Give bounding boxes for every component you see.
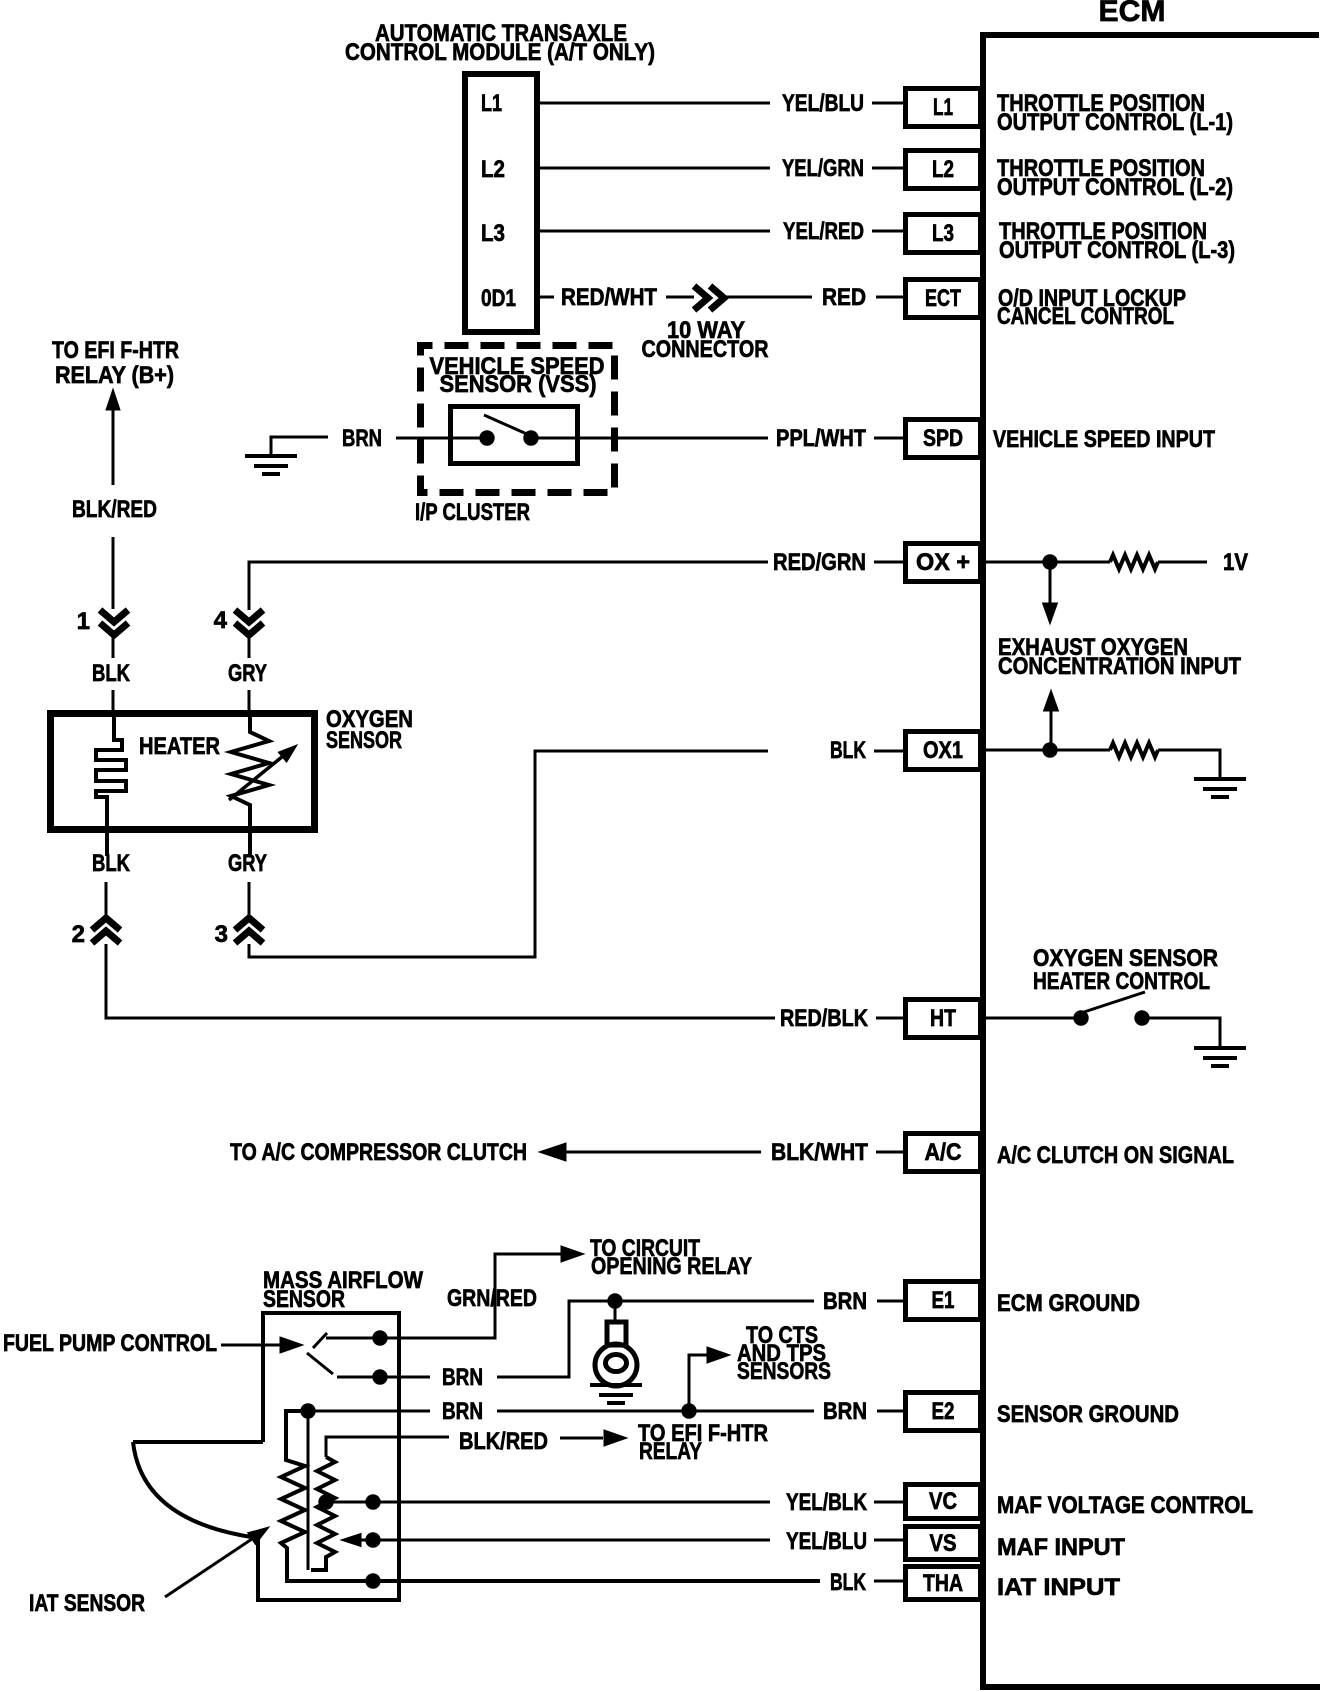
MAF terminal THA [366, 1574, 380, 1588]
oxygen sensing element (variable resistor) [231, 713, 269, 856]
svg-text:GRY: GRY [228, 660, 267, 687]
svg-text:BRN: BRN [823, 1288, 867, 1315]
ECM pin box ECT [906, 280, 981, 318]
svg-text:PPL/WHT: PPL/WHT [776, 425, 866, 452]
resistor OX1 to ground [1110, 743, 1158, 757]
ground at heater control switch [1194, 1048, 1246, 1066]
IAT sensor resistor [281, 1411, 820, 1581]
ECM pin box E2 [906, 1393, 981, 1431]
svg-text:YEL/RED: YEL/RED [783, 218, 864, 245]
svg-text:1: 1 [77, 608, 90, 635]
MAF switch upper stub [313, 1333, 327, 1348]
MAF switch blade [307, 1353, 333, 1374]
wire BRN from switch to E1 [337, 1376, 374, 1379]
svg-text:MAF VOLTAGE CONTROL: MAF VOLTAGE CONTROL [997, 1492, 1253, 1519]
arrowhead VS wiper [341, 1534, 361, 1547]
wire arrow to CTS and TPS sensors [689, 1355, 712, 1405]
junction at OX+ [1043, 555, 1057, 569]
svg-text:BLK: BLK [92, 660, 131, 687]
wire 0D1 RED/WHT [540, 296, 554, 299]
svg-text:YEL/BLK: YEL/BLK [786, 1489, 868, 1516]
svg-text:GRY: GRY [228, 850, 267, 877]
wire to connector 2 [105, 882, 108, 920]
svg-text:OUTPUT CONTROL (L-3): OUTPUT CONTROL (L-3) [999, 237, 1235, 264]
svg-text:SPD: SPD [923, 425, 963, 452]
VSS switch box [451, 407, 578, 464]
svg-text:L3: L3 [481, 220, 505, 247]
wire BLK to OX1 [249, 751, 768, 957]
connector 4 chevron [235, 610, 263, 635]
connector 2 chevron [92, 918, 120, 943]
VSS switch blade [484, 415, 529, 435]
wire OX1 to ground resistor [986, 749, 1044, 752]
arrow down exhaust oxygen [1049, 568, 1052, 606]
junction at OX1 [1043, 743, 1057, 757]
arrowhead to CTS and TPS sensors [707, 1347, 730, 1363]
junction at noise filter [608, 1294, 622, 1308]
svg-text:4: 4 [214, 607, 228, 634]
svg-text:OX1: OX1 [923, 737, 963, 764]
MAF terminal VC [366, 1495, 380, 1509]
wire fuel pump control [221, 1344, 284, 1347]
svg-text:SENSOR GROUND: SENSOR GROUND [997, 1401, 1179, 1428]
svg-text:OUTPUT CONTROL (L-2): OUTPUT CONTROL (L-2) [997, 174, 1233, 201]
ECM pin box OX1 [906, 732, 981, 770]
wire BRN to VSS switch [396, 437, 481, 440]
wire PPL/WHT to SPD [537, 437, 768, 440]
svg-text:3: 3 [215, 921, 228, 948]
HT switch contact right [1135, 1011, 1149, 1025]
wire switch to ground [1148, 1018, 1220, 1048]
svg-text:BLK: BLK [92, 850, 131, 877]
svg-text:FUEL PUMP CONTROL: FUEL PUMP CONTROL [3, 1330, 217, 1357]
svg-text:YEL/BLU: YEL/BLU [786, 1528, 867, 1555]
junction at hot wire resistor [319, 1495, 333, 1509]
svg-text:BLK: BLK [830, 737, 866, 764]
arrowhead fuel pump control [280, 1337, 303, 1353]
svg-text:BRN: BRN [442, 1398, 483, 1425]
HT switch contact left [1074, 1011, 1088, 1025]
ECM pin box OX + [906, 544, 981, 582]
svg-text:BRN: BRN [442, 1364, 483, 1391]
svg-text:ECM GROUND: ECM GROUND [997, 1290, 1140, 1317]
VSS switch contact left [480, 431, 494, 445]
wire below connector 1 [112, 637, 115, 658]
arrowhead up to EFI relay [106, 389, 120, 410]
svg-text:TO A/C COMPRESSOR CLUTCH: TO A/C COMPRESSOR CLUTCH [230, 1139, 527, 1166]
junction IAT to sensor ground [301, 1404, 315, 1418]
ground at VSS BRN wire [271, 437, 328, 455]
svg-text:RED/GRN: RED/GRN [773, 549, 866, 576]
arrowhead to A/C compressor clutch [539, 1143, 566, 1161]
svg-text:RELAY: RELAY [639, 1438, 702, 1465]
MAF switch upper contact [373, 1331, 387, 1345]
resistor to 1V [1110, 555, 1158, 569]
svg-text:2: 2 [72, 921, 85, 948]
ECM module outline [980, 32, 1320, 1687]
wire HT to switch [986, 1017, 1075, 1020]
svg-text:RED/BLK: RED/BLK [780, 1005, 869, 1032]
10-way connector symbol [694, 286, 724, 310]
svg-text:BLK: BLK [830, 1569, 866, 1596]
svg-text:BLK/WHT: BLK/WHT [771, 1139, 868, 1166]
noise filter capacitor [614, 1301, 617, 1322]
ECM pin box SPD [906, 420, 981, 458]
svg-text:THA: THA [923, 1570, 963, 1597]
svg-text:RELAY (B+): RELAY (B+) [55, 362, 174, 389]
arrowhead to EFI F-HTR relay [604, 1430, 627, 1446]
svg-text:SENSOR (VSS): SENSOR (VSS) [440, 371, 597, 398]
svg-text:GRN/RED: GRN/RED [447, 1285, 537, 1312]
svg-text:VC: VC [929, 1488, 957, 1515]
wire arrow to OX1 junction [1050, 708, 1053, 748]
svg-text:VS: VS [930, 1530, 957, 1557]
arrowhead to circuit opening relay [561, 1246, 584, 1262]
svg-text:SENSORS: SENSORS [737, 1358, 831, 1385]
wire to connector 3 [248, 882, 251, 920]
IAT sensor pointer arrow [165, 1537, 255, 1597]
ECM pin box VC [906, 1485, 981, 1519]
central return wire [307, 1411, 310, 1570]
svg-text:A/C CLUTCH ON SIGNAL: A/C CLUTCH ON SIGNAL [997, 1142, 1234, 1169]
svg-text:A/C: A/C [925, 1139, 962, 1166]
I/P cluster dashed box [421, 346, 615, 493]
svg-text:TO EFI F-HTR: TO EFI F-HTR [52, 337, 179, 364]
svg-text:BRN: BRN [342, 425, 382, 452]
svg-text:IAT SENSOR: IAT SENSOR [29, 1590, 145, 1617]
svg-text:0D1: 0D1 [481, 285, 516, 312]
wire below connector 4 [248, 637, 251, 658]
ECM pin box L1 [906, 89, 981, 127]
junction to CTS TPS sensors [682, 1404, 696, 1418]
wire BLK into heater box [112, 690, 115, 714]
svg-text:VEHICLE SPEED INPUT: VEHICLE SPEED INPUT [993, 426, 1215, 453]
mass airflow sensor box outline [133, 1313, 399, 1600]
svg-text:CANCEL CONTROL: CANCEL CONTROL [997, 303, 1174, 330]
ECM pin box L3 [906, 215, 981, 253]
variable resistor arrow [229, 752, 288, 800]
wire to circuit opening relay [326, 1337, 374, 1340]
wire L1 YEL/BLU [540, 102, 770, 105]
svg-text:RED/WHT: RED/WHT [561, 284, 657, 311]
svg-text:CONTROL MODULE (A/T ONLY): CONTROL MODULE (A/T ONLY) [345, 39, 655, 66]
VSS switch contact right [524, 431, 538, 445]
wire RED/BLK to HT [106, 944, 775, 1018]
MAF switch lower contact [373, 1370, 387, 1384]
svg-text:OPENING RELAY: OPENING RELAY [591, 1253, 752, 1280]
arrow up to OX1 [1044, 690, 1059, 711]
svg-text:I/P CLUSTER: I/P CLUSTER [415, 499, 530, 526]
automatic transaxle control module box [465, 74, 537, 332]
svg-text:OUTPUT CONTROL (L-1): OUTPUT CONTROL (L-1) [997, 109, 1233, 136]
MAF terminal VS [366, 1533, 380, 1547]
ground at noise filter [590, 1385, 642, 1403]
heater element [96, 713, 126, 856]
hot wire resistor [311, 1457, 335, 1570]
wire OX+ to 1V pullup [986, 561, 1044, 564]
svg-text:L1: L1 [481, 90, 502, 117]
wire to connector 1 [112, 537, 115, 609]
svg-text:ECM: ECM [1099, 0, 1166, 28]
svg-text:IAT INPUT: IAT INPUT [997, 1574, 1120, 1601]
wire L3 YEL/RED [540, 230, 770, 233]
connector 3 chevron [235, 918, 263, 943]
svg-text:RED: RED [822, 284, 866, 311]
svg-text:ECT: ECT [925, 285, 961, 312]
svg-text:1V: 1V [1223, 549, 1248, 576]
wire BLK/WHT [560, 1151, 761, 1154]
svg-text:BLK/RED: BLK/RED [459, 1428, 548, 1455]
svg-text:YEL/GRN: YEL/GRN [782, 155, 864, 182]
svg-text:L3: L3 [932, 220, 954, 247]
svg-text:BRN: BRN [823, 1398, 867, 1425]
svg-text:SENSOR: SENSOR [263, 1286, 345, 1313]
svg-text:E1: E1 [932, 1287, 955, 1314]
oxygen sensor box [51, 714, 315, 830]
ECM pin box THA [906, 1567, 981, 1600]
svg-text:HT: HT [930, 1005, 956, 1032]
ECM pin box L2 [906, 151, 981, 189]
wire RED/GRN from oxygen sensor to OX+ [249, 562, 768, 610]
svg-text:CONCENTRATION INPUT: CONCENTRATION INPUT [998, 653, 1241, 680]
wire GRY into sensor box [248, 690, 251, 714]
svg-text:L2: L2 [481, 156, 505, 183]
svg-text:YEL/BLU: YEL/BLU [782, 90, 864, 117]
wire BLK/RED to EFI relay [560, 1437, 603, 1440]
ground at OX1 resistor [1194, 779, 1246, 797]
svg-text:OX +: OX + [916, 549, 970, 576]
wire L2 YEL/GRN [540, 167, 770, 170]
wire from hot-wire resistor top [326, 1437, 449, 1457]
svg-text:MAF INPUT: MAF INPUT [997, 1534, 1125, 1561]
svg-text:HEATER: HEATER [139, 733, 220, 760]
svg-text:E2: E2 [932, 1398, 955, 1425]
svg-text:CONNECTOR: CONNECTOR [642, 336, 769, 363]
ECM pin box E1 [906, 1282, 981, 1320]
ECM pin box HT [906, 1000, 981, 1038]
ECM pin box VS [906, 1527, 981, 1560]
svg-text:SENSOR: SENSOR [326, 727, 402, 754]
ECM pin box A/C [906, 1134, 981, 1172]
svg-text:L1: L1 [933, 94, 953, 121]
svg-text:L2: L2 [932, 156, 954, 183]
HT switch blade [1084, 992, 1145, 1012]
svg-text:HEATER CONTROL: HEATER CONTROL [1033, 968, 1210, 995]
svg-text:BLK/RED: BLK/RED [72, 496, 157, 523]
connector 1 chevron [100, 610, 128, 635]
wire BLK/RED vertical [112, 409, 115, 485]
